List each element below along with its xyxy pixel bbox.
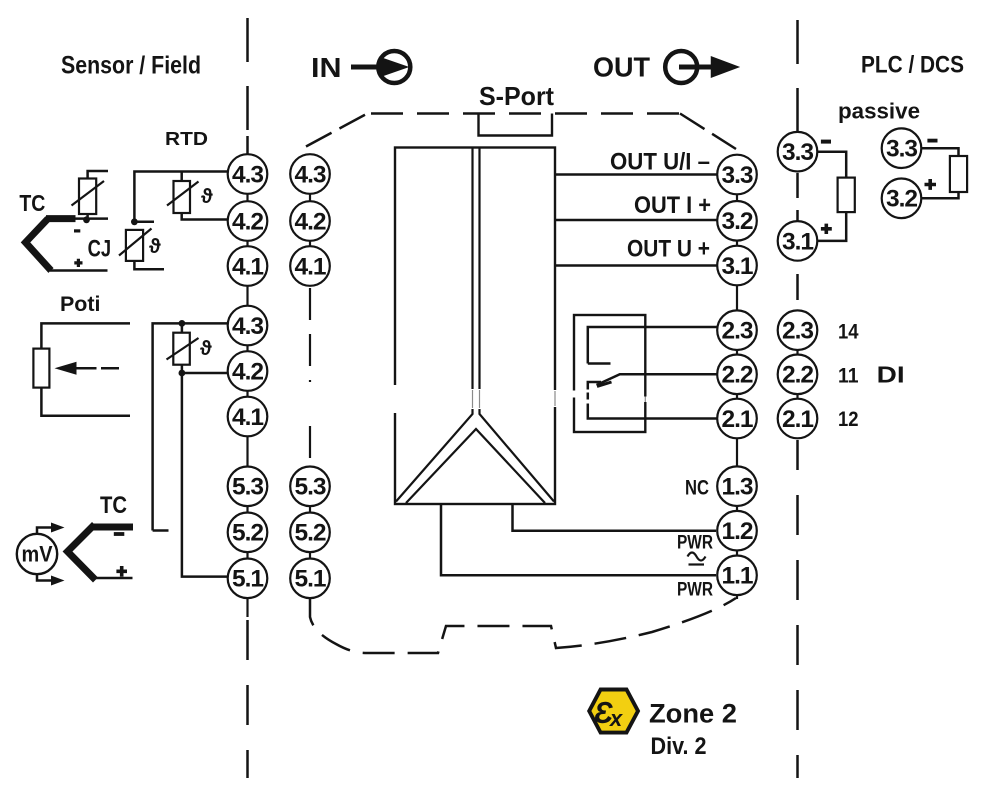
wire right separator dashed line top: [796, 20, 799, 131]
watermark line remnants: [473, 390, 646, 408]
label plus r3 loop: [925, 179, 937, 190]
svg-text:3.3: 3.3: [721, 162, 752, 189]
symbol PWR AC/DC: [688, 553, 706, 565]
svg-text:Poti: Poti: [60, 293, 101, 316]
wire module bottom to terminal 1.1: [441, 504, 716, 575]
wire OUT U/I- to terminal 3.3: [555, 173, 717, 176]
svg-text:5.3: 5.3: [294, 474, 325, 501]
svg-text:3.2: 3.2: [721, 208, 752, 235]
svg-text:4.3: 4.3: [232, 313, 263, 340]
svg-text:passive: passive: [838, 99, 920, 124]
terminal 4.3 col1: [228, 154, 268, 194]
terminal 4.1 col1: [228, 246, 268, 286]
wire RTD bottom to terminal 4.2: [182, 213, 229, 220]
mV source circle: [17, 534, 57, 574]
terminal 4.3 col2: [290, 154, 330, 194]
wire potentiometer top: [41, 323, 130, 348]
svg-text:Zone 2: Zone 2: [649, 699, 737, 729]
svg-text:DI: DI: [877, 361, 905, 387]
wire OUT I+ to terminal 3.2: [555, 219, 717, 222]
boundary dashed diagonal top-left: [306, 112, 371, 147]
wire connector r1 2.2-2.1: [736, 394, 738, 399]
terminal 1.3 r1: [717, 466, 757, 506]
terminal 3.2 r3: [882, 179, 922, 219]
svg-text:PLC / DCS: PLC / DCS: [861, 52, 964, 79]
wire TC bottom lower arm: [94, 577, 133, 580]
wire connector r1 3.2-3.1: [736, 241, 738, 246]
thermocouple TC bottom symbol: [68, 525, 96, 581]
svg-text:3.3: 3.3: [782, 139, 813, 166]
wire stub r1 below 1.1: [736, 595, 738, 599]
svg-text:5.1: 5.1: [294, 566, 325, 593]
watermark erasure band: [302, 382, 647, 414]
svg-text:2.1: 2.1: [782, 406, 813, 433]
module isolation divider inner chevron: [406, 429, 545, 503]
wire passive loop 1 bottom: [818, 212, 847, 241]
terminal 3.3 r3: [882, 128, 922, 168]
wire right separator dashed line bottom: [796, 440, 799, 778]
label minus r2 loop: [821, 140, 831, 144]
terminal 5.1 col2: [290, 559, 330, 599]
wire connector r1 2.3-2.2: [736, 350, 738, 355]
wire CJ branch top rail to terminal 4.3: [134, 172, 228, 222]
svg-text:OUT U/I –: OUT U/I –: [610, 149, 710, 176]
terminal 3.1 r2: [778, 221, 818, 261]
svg-text:4.3: 4.3: [294, 161, 325, 188]
relay NC contact to terminal 2.1: [588, 382, 717, 419]
terminal 3.1 r1: [717, 246, 757, 286]
wire passive loop 2 bottom: [922, 192, 959, 198]
wire connector r1 3.1-2.3: [736, 285, 738, 310]
wire connector r1 1.3-1.2: [736, 506, 738, 511]
svg-text:4.2: 4.2: [232, 208, 263, 235]
relay blade tick: [597, 382, 612, 387]
wire poti-RTD top stub: [181, 323, 184, 332]
junction dot CJ top: [131, 218, 138, 225]
svg-text:TC: TC: [19, 190, 45, 216]
potentiometer P1 body: [33, 349, 49, 388]
junction dot poti-RTD bottom: [179, 370, 186, 377]
svg-text:4.1: 4.1: [232, 404, 263, 431]
svg-text:3.2: 3.2: [886, 186, 917, 213]
wire poti rail to terminal 4.3 lower group: [153, 323, 229, 530]
svg-text:4.3: 4.3: [232, 161, 263, 188]
module isolation divider right branch: [480, 148, 555, 502]
terminal 5.1 col1: [228, 559, 268, 599]
resistor compensation (top-left): [79, 179, 96, 215]
wire RTD top stub: [180, 172, 183, 182]
wire TC top upper arm: [73, 217, 108, 220]
wire connector col1 4.2-4.1: [246, 241, 248, 246]
svg-text:CJ: CJ: [88, 236, 112, 263]
terminal 4.2 col2: [290, 201, 330, 241]
terminal 1.1 r1: [717, 556, 757, 596]
wire connector col1 5.3-5.2: [246, 506, 248, 512]
wire dashed col2 below 4.1: [309, 288, 311, 464]
svg-text:NC: NC: [685, 476, 709, 500]
terminal 2.3 r2: [778, 310, 818, 350]
wire long vertical to terminal 5.1: [182, 373, 229, 577]
boundary dashed bottom outline: [310, 598, 736, 653]
label plus TC top: [74, 259, 82, 267]
terminal 4.2b col1: [228, 351, 268, 391]
relay common blade to terminal 2.2: [597, 374, 717, 385]
module U1 body: [395, 148, 555, 505]
label plus TC bottom: [116, 566, 127, 577]
svg-text:RTD: RTD: [165, 129, 208, 149]
label minus r3 loop: [927, 139, 937, 143]
svg-text:2.3: 2.3: [721, 318, 752, 345]
label plus r2 loop: [821, 224, 832, 234]
svg-text:mV: mV: [22, 542, 53, 567]
wire connector col1 4.3b-4.2b: [246, 345, 248, 351]
mV arrow bottom: [37, 575, 52, 581]
svg-text:TC: TC: [100, 492, 127, 519]
relay contact box: [574, 315, 645, 432]
wire right separator dash 3.1-2.3: [796, 274, 799, 310]
icon OUT arrow-circle: [665, 51, 714, 83]
wire passive loop 2 top: [922, 148, 959, 156]
terminal 2.1 r1: [717, 399, 757, 439]
terminal 2.1 r2: [778, 399, 818, 439]
svg-text:1.1: 1.1: [721, 563, 752, 590]
svg-text:x: x: [609, 706, 623, 731]
svg-text:2.2: 2.2: [782, 362, 813, 389]
wire connector r2 2.3-2.2: [796, 350, 798, 355]
svg-text:5.2: 5.2: [232, 520, 263, 547]
S-Port bracket: [479, 114, 553, 136]
terminal 5.3 col1: [228, 467, 268, 507]
svg-text:PWR: PWR: [677, 580, 713, 601]
svg-text:OUT: OUT: [593, 52, 650, 83]
wire connector r2 2.2-2.1: [796, 394, 798, 399]
terminal 1.2 r1: [717, 511, 757, 551]
wire CJ thermistor bottom: [134, 261, 164, 269]
svg-text:S-Port: S-Port: [479, 81, 554, 111]
svg-text:2.3: 2.3: [782, 318, 813, 345]
symbol Ex hexagon Zone 2: [589, 690, 638, 733]
wire passive loop 1 top: [818, 152, 846, 178]
terminal 4.1 col2: [290, 246, 330, 286]
wire left separator dashed line bottom: [246, 620, 249, 778]
wire connector col1 4.1b-5.3: [246, 436, 248, 466]
resistor RTD thermistor: [174, 181, 191, 213]
thermocouple TC top symbol: [26, 219, 52, 271]
svg-text:4.2: 4.2: [232, 358, 263, 385]
terminal 2.2 r2: [778, 355, 818, 395]
wire poti-RTD bottom rail to 4.2: [182, 365, 229, 373]
module isolation divider left branch: [396, 148, 473, 502]
svg-text:12: 12: [838, 408, 859, 431]
label minus TC bottom: [114, 532, 125, 536]
wire CJ junction stub: [134, 221, 154, 224]
svg-text:OUT U +: OUT U +: [627, 236, 710, 263]
svg-text:4.1: 4.1: [232, 253, 263, 280]
junction dot TC/compensation: [83, 216, 90, 223]
svg-text:1.2: 1.2: [721, 518, 752, 545]
wire connector col1 4.2b-4.1b: [246, 391, 248, 397]
resistor load R-load1: [838, 178, 855, 213]
svg-text:Sensor / Field: Sensor / Field: [61, 52, 201, 80]
label minus TC top: [74, 229, 80, 232]
svg-text:ϑ: ϑ: [201, 186, 213, 208]
svg-text:4.2: 4.2: [294, 208, 325, 235]
svg-text:3.3: 3.3: [886, 136, 917, 163]
resistor load R-load2: [950, 156, 967, 192]
wire right separator dash 3.3-3.1: [796, 173, 799, 221]
wire connector col1 4.1-4.3b: [246, 286, 248, 306]
wire connector col1 4.3-4.2: [246, 194, 248, 201]
relay NO contact to terminal 2.3: [588, 327, 717, 364]
svg-text:14: 14: [838, 321, 859, 344]
terminal 5.2 col2: [290, 513, 330, 553]
wire connector col2 4.2-4.1: [309, 241, 311, 246]
terminal 4.3b col1: [228, 306, 268, 346]
terminal 2.3 r1: [717, 310, 757, 350]
boundary dashed horizontal top: [371, 112, 680, 115]
wire connector r1 3.3-3.2: [736, 194, 738, 201]
mV arrow top: [37, 528, 52, 534]
wire TC lower stub corner: [153, 529, 169, 532]
wire compensation resistor top stub: [88, 171, 108, 179]
terminal 3.2 r1: [717, 201, 757, 241]
svg-text:OUT I +: OUT I +: [634, 192, 711, 219]
svg-text:5.3: 5.3: [232, 474, 263, 501]
svg-text:5.2: 5.2: [294, 520, 325, 547]
wire left separator dashed line top: [246, 18, 249, 133]
potentiometer wiper arrow: [76, 367, 97, 370]
wire connector r1 1.2-1.1: [736, 551, 738, 556]
svg-text:2.1: 2.1: [721, 406, 752, 433]
wire TC top lower arm: [50, 269, 108, 272]
wire stub col1 below 5.1: [246, 598, 248, 617]
wire connector r1 2.1-1.3: [736, 438, 738, 466]
wire OUT U+ to terminal 3.1: [555, 264, 717, 267]
potentiometer wiper dashed stub: [101, 367, 119, 370]
svg-text:IN: IN: [311, 52, 342, 83]
wire left separator connector into 4.3: [246, 136, 249, 154]
resistor CJ thermistor: [126, 230, 143, 261]
svg-text:ϑ: ϑ: [149, 236, 161, 258]
wire module bottom to terminal 1.2: [513, 504, 717, 531]
svg-text:PWR: PWR: [677, 532, 713, 553]
junction dot poti RTD top: [179, 320, 186, 327]
terminal 3.3 r2: [778, 132, 818, 172]
wire potentiometer bottom: [41, 388, 130, 416]
svg-text:3.1: 3.1: [782, 228, 813, 255]
wire compensation resistor bottom: [86, 214, 89, 220]
svg-text:1.3: 1.3: [721, 474, 752, 501]
svg-text:2.2: 2.2: [721, 362, 752, 389]
svg-text:5.1: 5.1: [232, 566, 263, 593]
terminal 3.3 r1: [717, 155, 757, 195]
svg-text:3.1: 3.1: [721, 253, 752, 280]
wire connector col1 5.2-5.1: [246, 552, 248, 558]
icon IN arrow-circle: [351, 51, 410, 83]
wire connector col2 5.2-5.1: [309, 552, 311, 558]
terminal 2.2 r1: [717, 355, 757, 395]
svg-text:ϑ: ϑ: [200, 338, 212, 360]
terminal 5.2 col1: [228, 513, 268, 553]
terminal 5.3 col2: [290, 467, 330, 507]
terminal 4.1b col1: [228, 397, 268, 437]
svg-text:Div. 2: Div. 2: [651, 733, 707, 760]
terminal 4.2 col1: [228, 201, 268, 241]
svg-text:11: 11: [838, 365, 859, 388]
boundary dashed diagonal top-right: [680, 114, 736, 150]
resistor poti-RTD thermistor: [173, 333, 190, 365]
svg-text:4.1: 4.1: [294, 253, 325, 280]
wire connector col2 4.3-4.2: [309, 194, 311, 201]
wire connector col2 5.3-5.2: [309, 506, 311, 512]
